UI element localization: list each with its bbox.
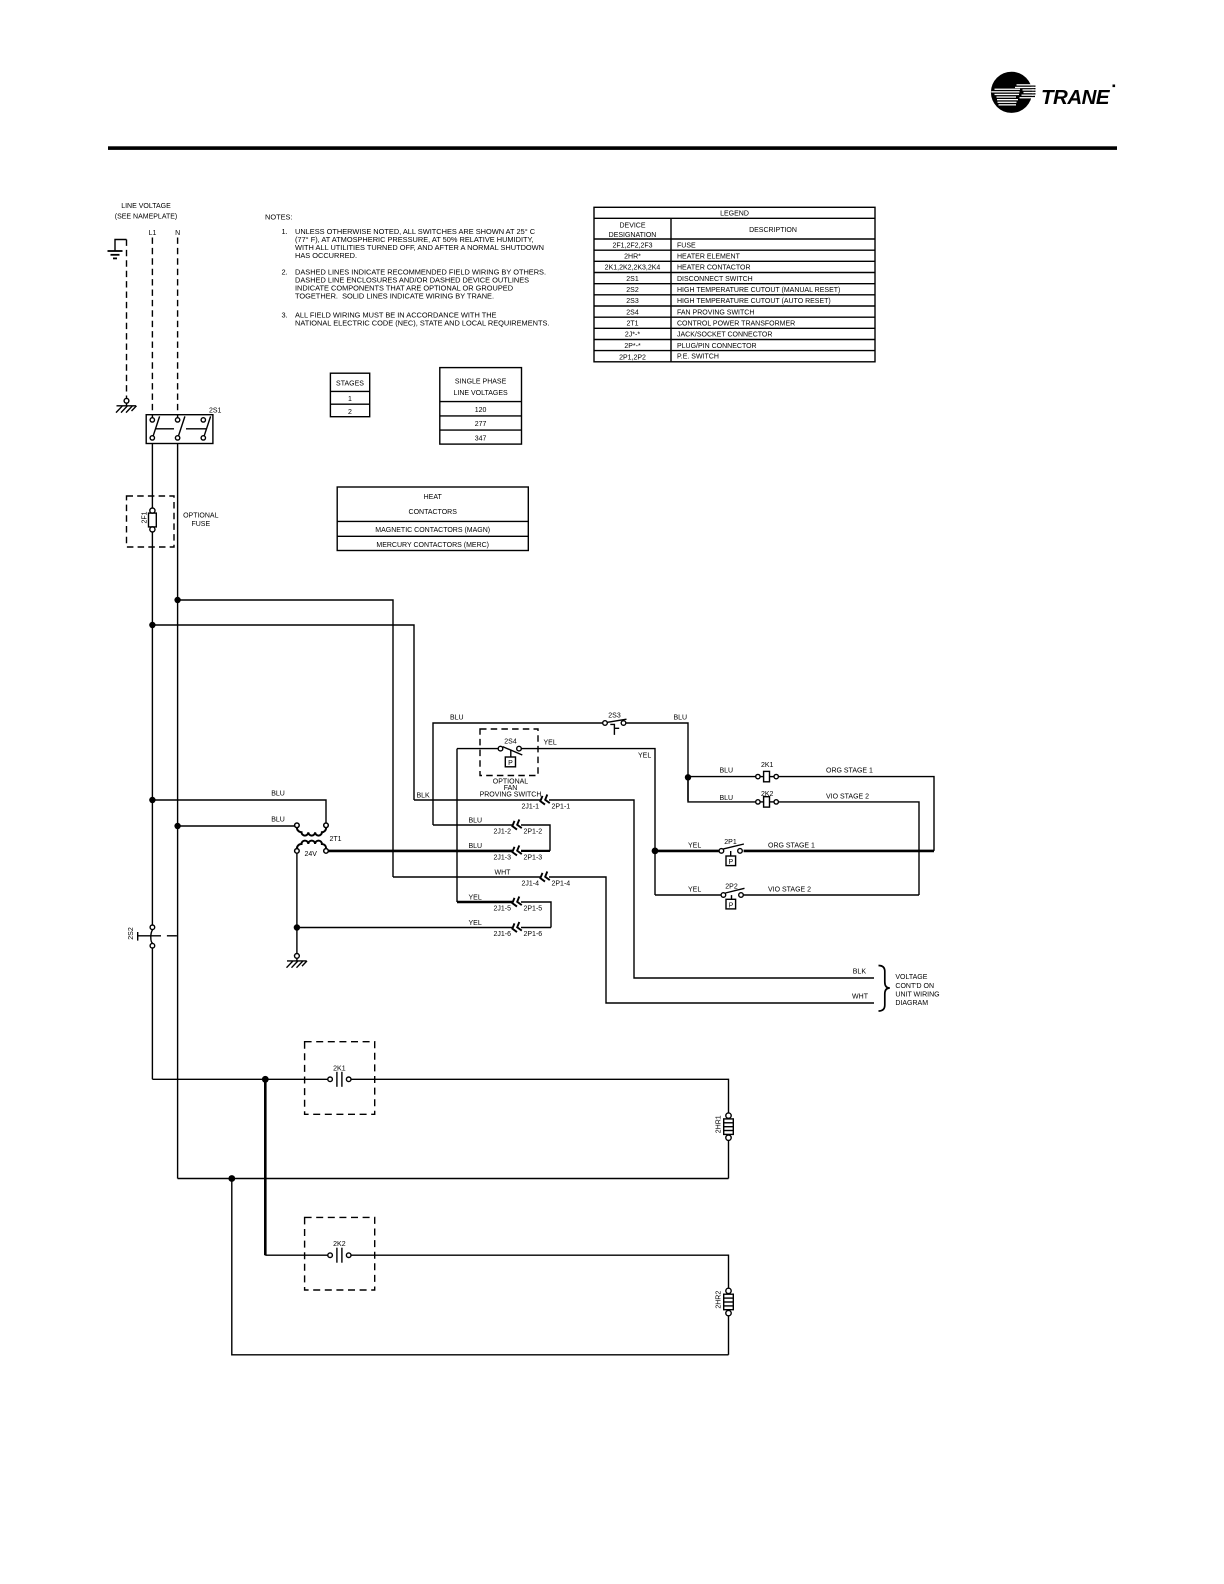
svg-text:2K1: 2K1: [333, 1065, 346, 1072]
svg-text:YEL: YEL: [469, 894, 482, 901]
connector 2J1-4/2P1-4: [539, 872, 550, 883]
svg-text:2P1-6: 2P1-6: [524, 931, 543, 938]
svg-text:2P*-*: 2P*-*: [624, 343, 641, 350]
svg-text:VIO STAGE 2: VIO STAGE 2: [826, 794, 869, 801]
wire heater1 to N: [728, 1140, 730, 1178]
wire 2P1-6 stub: [521, 927, 551, 929]
node YEL bus: [652, 848, 659, 855]
wire L1: [151, 444, 153, 509]
svg-text:LINE VOLTAGES: LINE VOLTAGES: [453, 390, 508, 397]
contactor coil 2K1: [756, 771, 779, 781]
svg-text:UNIT WIRING: UNIT WIRING: [895, 991, 939, 998]
svg-text:2J1-5: 2J1-5: [493, 906, 511, 913]
wire 2P1-5 to 2P1-6: [521, 902, 551, 928]
svg-text:2J1-1: 2J1-1: [521, 804, 539, 811]
wire BLU 2J1-2 row: [433, 824, 513, 826]
wire 2K2 to heater: [351, 1255, 729, 1288]
svg-text:BLU: BLU: [450, 715, 464, 722]
wire 2P1-3 stub: [521, 850, 550, 852]
wire WHT row: [393, 876, 541, 878]
contactor box 2K2: [305, 1217, 375, 1290]
svg-text:2: 2: [348, 409, 352, 416]
svg-text:DEVICE: DEVICE: [619, 223, 645, 230]
svg-text:2P1-5: 2P1-5: [524, 906, 543, 913]
wire BLU 24V thick 2J1-3 row: [328, 850, 513, 853]
svg-text:FUSE: FUSE: [191, 521, 210, 528]
svg-text:1: 1: [348, 396, 352, 403]
svg-text:2K1,2K2,2K3,2K4: 2K1,2K2,2K3,2K4: [605, 265, 661, 272]
svg-text:PROVING SWITCH: PROVING SWITCH: [480, 791, 542, 798]
svg-text:NATIONAL ELECTRIC CODE (NEC),: NATIONAL ELECTRIC CODE (NEC), STATE AND …: [295, 319, 549, 328]
svg-text:JACK/SOCKET CONNECTOR: JACK/SOCKET CONNECTOR: [677, 332, 772, 339]
svg-text:HIGH TEMPERATURE CUTOUT (AUTO: HIGH TEMPERATURE CUTOUT (AUTO RESET): [677, 298, 831, 305]
PE switch 2P2: [721, 888, 744, 909]
svg-text:2F1: 2F1: [142, 511, 149, 523]
connector 2J1-2/2P1-2: [511, 820, 522, 831]
svg-text:2S4: 2S4: [626, 309, 639, 316]
svg-text:OPTIONAL: OPTIONAL: [183, 513, 219, 520]
wire VIO STAGE 2 coil: [778, 802, 919, 895]
svg-text:2P1-4: 2P1-4: [552, 881, 571, 888]
svg-text:24V: 24V: [305, 851, 318, 858]
wire BLK to right: [549, 800, 874, 978]
node BLU branch: [685, 774, 691, 780]
svg-text:CONTACTORS: CONTACTORS: [409, 509, 458, 516]
svg-text:YEL: YEL: [688, 842, 701, 849]
wire YEL thick 2J1-5 row: [457, 901, 513, 904]
svg-text:BLU: BLU: [469, 817, 483, 824]
svg-text:YEL: YEL: [469, 920, 482, 927]
svg-text:BLK: BLK: [853, 969, 867, 976]
svg-text:2HR1: 2HR1: [715, 1115, 722, 1133]
high temp cutout 2S2: [138, 925, 177, 948]
svg-text:BLU: BLU: [271, 817, 285, 824]
fuse 2F1: [149, 508, 157, 532]
PE switch 2P1: [719, 844, 744, 866]
heater element 2HR2: [724, 1288, 734, 1316]
svg-text:277: 277: [475, 421, 487, 428]
disconnect switch 2S1: [146, 415, 213, 444]
svg-text:MAGNETIC CONTACTORS (MAGN): MAGNETIC CONTACTORS (MAGN): [375, 527, 490, 534]
svg-text:NOTES:: NOTES:: [265, 213, 293, 222]
svg-text:2P1-1: 2P1-1: [552, 804, 571, 811]
svg-text:N: N: [175, 230, 180, 237]
svg-text:120: 120: [475, 407, 487, 414]
wire N return: [178, 1178, 729, 1180]
stages table: [330, 373, 369, 417]
wire N return 2: [232, 1179, 729, 1355]
svg-text:2K2: 2K2: [333, 1241, 346, 1248]
svg-text:2S1: 2S1: [626, 276, 639, 283]
chassis ground: [116, 398, 137, 412]
svg-text:P: P: [729, 902, 734, 909]
node N-WHT: [174, 597, 180, 603]
connector 2J1-6/2P1-6: [511, 922, 522, 933]
svg-text:2K2: 2K2: [761, 791, 774, 798]
svg-text:2J1-4: 2J1-4: [521, 881, 539, 888]
svg-text:CONTROL POWER TRANSFORMER: CONTROL POWER TRANSFORMER: [677, 321, 795, 328]
svg-text:BLU: BLU: [720, 768, 734, 775]
svg-text:STAGES: STAGES: [336, 380, 364, 387]
optional fuse box: [127, 496, 175, 547]
heater element 2HR1: [724, 1113, 734, 1141]
wire VIO STAGE 2: [744, 894, 919, 896]
svg-text:3.: 3.: [282, 311, 288, 320]
svg-text:HIGH TEMPERATURE CUTOUT (MANUA: HIGH TEMPERATURE CUTOUT (MANUAL RESET): [677, 287, 840, 294]
svg-text:FUSE: FUSE: [677, 242, 696, 249]
svg-text:2J1-3: 2J1-3: [493, 855, 511, 862]
wire ORG STAGE 1 coil: [778, 777, 934, 851]
wire L1 to 2K1 contact: [152, 1078, 328, 1080]
svg-text:2S1: 2S1: [209, 408, 222, 415]
legend table: [594, 207, 875, 361]
wire BLU to 2K1: [688, 776, 756, 778]
svg-text:YEL: YEL: [544, 739, 557, 746]
svg-text:ORG STAGE 1: ORG STAGE 1: [826, 768, 873, 775]
svg-text:DESIGNATION: DESIGNATION: [609, 232, 657, 239]
wire BLK row: [414, 799, 541, 801]
wire 2S4 to 2J1-5: [456, 749, 458, 902]
svg-text:WHT: WHT: [495, 869, 512, 876]
svg-text:DIAGRAM: DIAGRAM: [895, 1000, 928, 1007]
chassis ground 24V: [287, 954, 308, 968]
svg-text:MERCURY CONTACTORS (MERC): MERCURY CONTACTORS (MERC): [376, 542, 489, 549]
wire heater2 to N: [728, 1316, 730, 1355]
svg-text:2T1: 2T1: [626, 321, 638, 328]
svg-text:BLU: BLU: [469, 843, 483, 850]
svg-text:CONT'D ON: CONT'D ON: [895, 983, 934, 990]
svg-text:DESCRIPTION: DESCRIPTION: [749, 227, 797, 234]
svg-text:L1: L1: [149, 230, 157, 237]
svg-text:P.E. SWITCH: P.E. SWITCH: [677, 353, 719, 360]
svg-text:2T1: 2T1: [330, 836, 342, 843]
transformer 2T1: [295, 823, 329, 853]
svg-text:2K1: 2K1: [761, 762, 774, 769]
wire ORG STAGE 1 thick: [744, 850, 934, 853]
node N-BLU: [174, 823, 180, 829]
svg-text:YEL: YEL: [688, 886, 701, 893]
wire YEL to 2P2: [655, 894, 721, 896]
high temp cutout 2S3: [603, 719, 627, 735]
wire N dashed: [177, 238, 179, 418]
svg-text:2J1-2: 2J1-2: [493, 829, 511, 836]
svg-text:347: 347: [475, 435, 487, 442]
svg-text:DISCONNECT SWITCH: DISCONNECT SWITCH: [677, 276, 753, 283]
svg-text:ORG STAGE 1: ORG STAGE 1: [768, 842, 815, 849]
wire BLU N to transformer: [178, 825, 295, 827]
svg-text:2S3: 2S3: [626, 298, 639, 305]
wire BLU L1 to transformer: [152, 800, 326, 823]
contactor coil 2K2: [756, 797, 779, 807]
wire 2K2 feeder thick: [264, 1079, 267, 1255]
svg-text:2F1,2F2,2F3: 2F1,2F2,2F3: [612, 242, 652, 249]
line voltage label: [115, 203, 180, 237]
node 24V common: [294, 924, 300, 930]
wire L1: [151, 532, 153, 925]
wire YEL from 2S4: [521, 749, 655, 895]
wire BLU loop: [433, 723, 603, 825]
wire N-WHT run: [178, 600, 393, 877]
svg-text:WHT: WHT: [852, 994, 869, 1001]
svg-text:2J1-6: 2J1-6: [493, 931, 511, 938]
svg-text:BLU: BLU: [674, 715, 688, 722]
wire 2K1 to heater: [351, 1079, 729, 1113]
wire BLU to 2K2: [688, 777, 756, 802]
ground dashed wire: [126, 240, 128, 399]
svg-text:HEATER CONTACTOR: HEATER CONTACTOR: [677, 265, 751, 272]
svg-text:2S4: 2S4: [504, 739, 517, 746]
connector 2J1-1/2P1-1: [539, 795, 550, 806]
wire BLU after 2S3: [626, 723, 688, 801]
svg-text:YEL: YEL: [638, 753, 651, 760]
fan proving switch 2S4: [480, 729, 538, 776]
notes text: [265, 213, 549, 328]
earth ground: [108, 240, 127, 259]
svg-text:SINGLE PHASE: SINGLE PHASE: [455, 379, 507, 386]
header rule: [108, 146, 1117, 150]
svg-text:VIO STAGE 2: VIO STAGE 2: [768, 886, 811, 893]
svg-text:2P1-2: 2P1-2: [524, 829, 543, 836]
svg-text:2.: 2.: [282, 268, 288, 277]
svg-text:LINE VOLTAGE: LINE VOLTAGE: [121, 203, 171, 210]
connector 2J1-5/2P1-5: [511, 897, 522, 908]
svg-text:HEAT: HEAT: [424, 494, 443, 501]
svg-text:TOGETHER. SOLID LINES INDICAT: TOGETHER. SOLID LINES INDICATE WIRING BY…: [295, 292, 494, 301]
wire to 2K2 contact: [265, 1254, 328, 1256]
node L1-BLU: [149, 797, 155, 803]
contact 2K2: [328, 1248, 351, 1263]
svg-text:BLU: BLU: [720, 795, 734, 802]
wire YEL bus thick: [655, 850, 719, 853]
svg-text:TRANE: TRANE: [1041, 86, 1111, 109]
svg-text:P: P: [728, 859, 733, 866]
svg-text:2P1,2P2: 2P1,2P2: [619, 354, 646, 361]
svg-text:2S3: 2S3: [608, 713, 621, 720]
wire 2P1-2 to 2P1-3: [521, 825, 550, 851]
wire L1 below 2S2: [151, 948, 153, 1079]
svg-text:2P1: 2P1: [724, 839, 737, 846]
svg-text:1.: 1.: [282, 227, 288, 236]
svg-text:HAS OCCURRED.: HAS OCCURRED.: [295, 251, 357, 260]
node L1-BLK: [149, 622, 155, 628]
single phase line voltages table: [440, 368, 522, 445]
wire WHT to right: [549, 877, 874, 1003]
svg-text:2S2: 2S2: [626, 287, 639, 294]
connector 2J1-3/2P1-3: [511, 845, 522, 856]
wire YEL 2J1-6 row: [297, 927, 513, 929]
svg-text:2P2: 2P2: [725, 883, 738, 890]
svg-text:2P1-3: 2P1-3: [524, 855, 543, 862]
voltage contd brace: [879, 966, 890, 1012]
node N return branch: [228, 1175, 235, 1182]
wire into 2S4: [457, 748, 498, 750]
wire N: [177, 444, 179, 1179]
svg-text:BLU: BLU: [271, 791, 285, 798]
Trane logo: [991, 72, 1115, 113]
heat contactors table: [337, 487, 528, 551]
svg-text:2S2: 2S2: [128, 927, 135, 940]
svg-text:P: P: [508, 760, 513, 767]
svg-text:BLK: BLK: [417, 792, 431, 799]
svg-text:PLUG/PIN CONNECTOR: PLUG/PIN CONNECTOR: [677, 343, 757, 350]
svg-text:HEATER ELEMENT: HEATER ELEMENT: [677, 254, 741, 261]
contact 2K1: [328, 1072, 351, 1087]
svg-text:VOLTAGE: VOLTAGE: [895, 974, 927, 981]
node 2K2 branch: [262, 1076, 269, 1083]
contactor box 2K1: [305, 1042, 375, 1115]
svg-text:2HR*: 2HR*: [624, 254, 641, 261]
svg-text:FAN PROVING SWITCH: FAN PROVING SWITCH: [677, 309, 754, 316]
svg-text:2HR2: 2HR2: [715, 1291, 722, 1309]
svg-text:LEGEND: LEGEND: [720, 211, 749, 218]
wire L1 dashed: [151, 238, 153, 418]
wire secondary left to ground: [296, 853, 298, 953]
wire L1-BLK run: [152, 625, 414, 800]
svg-text:2J*-*: 2J*-*: [625, 332, 640, 339]
svg-text:(SEE NAMEPLATE): (SEE NAMEPLATE): [115, 214, 178, 221]
